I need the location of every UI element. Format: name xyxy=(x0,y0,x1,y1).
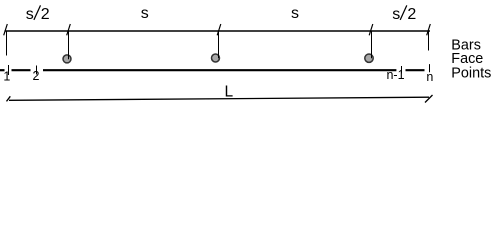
svg-text:s: s xyxy=(392,6,400,23)
svg-text:2: 2 xyxy=(41,6,50,23)
svg-text:n-1: n-1 xyxy=(386,68,404,82)
svg-text:2: 2 xyxy=(33,69,40,83)
svg-text:L: L xyxy=(224,83,233,100)
svg-text:n: n xyxy=(426,70,433,84)
svg-text:s: s xyxy=(291,5,299,22)
svg-text:1: 1 xyxy=(3,69,10,83)
svg-text:2: 2 xyxy=(407,6,416,23)
svg-text:s: s xyxy=(141,5,149,22)
svg-text:s: s xyxy=(26,6,34,23)
svg-text:Points: Points xyxy=(451,66,491,82)
